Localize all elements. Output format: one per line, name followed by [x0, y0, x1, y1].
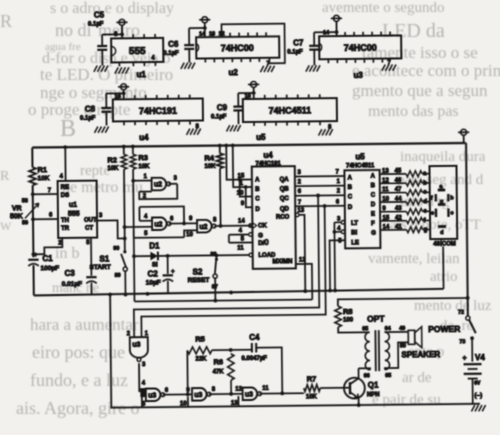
svg-text:12: 12: [299, 257, 306, 263]
svg-text:repte: repte: [80, 163, 110, 179]
resistor R4: [219, 146, 221, 154]
svg-text:F: F: [371, 221, 375, 227]
wire latch loop1: [139, 184, 177, 199]
svg-text:C: C: [348, 194, 353, 200]
svg-text:R: R: [0, 11, 12, 31]
svg-text:13: 13: [382, 169, 389, 175]
svg-text:D: D: [255, 207, 260, 213]
svg-text:Q1: Q1: [368, 381, 379, 390]
nand gate u3 third: [192, 388, 207, 401]
svg-text:14: 14: [323, 30, 330, 36]
svg-text:d: d: [423, 199, 427, 205]
wire OPT primary bottom to Q1: [358, 368, 370, 370]
svg-text:66: 66: [364, 373, 370, 379]
svg-text:41: 41: [395, 224, 402, 230]
wire gate3 pin10 to rail: [187, 397, 189, 407]
svg-text:SPEAKER: SPEAKER: [401, 350, 440, 359]
svg-text:73: 73: [459, 339, 465, 345]
svg-text:LE: LE: [351, 240, 359, 246]
svg-text:A: A: [371, 174, 376, 180]
svg-text:TR: TR: [61, 226, 70, 232]
svg-text:B: B: [60, 116, 76, 142]
svg-text:g: g: [424, 227, 428, 233]
svg-text:11: 11: [237, 246, 244, 252]
wire right +V rail: [464, 142, 466, 144]
svg-text:555: 555: [68, 211, 80, 218]
svg-text:48: 48: [433, 242, 440, 248]
svg-text:u5: u5: [256, 133, 266, 142]
svg-text:RE: RE: [61, 185, 69, 191]
svg-text:c: c: [450, 210, 453, 216]
svg-text:u3: u3: [245, 391, 253, 398]
wire latch bottom: [134, 236, 184, 239]
svg-text:TH: TH: [61, 218, 69, 224]
svg-text:W: W: [0, 219, 12, 233]
svg-text:S2: S2: [193, 267, 203, 276]
wire bottom rail: [34, 289, 444, 296]
svg-text:90: 90: [113, 246, 119, 252]
ground: [260, 66, 263, 72]
svg-text:22K: 22K: [195, 356, 207, 362]
svg-text:d: d: [440, 230, 443, 236]
svg-text:10K: 10K: [38, 175, 50, 182]
wire pin4 RE to rail: [64, 147, 66, 181]
svg-text:555: 555: [129, 46, 146, 57]
wire gate2 out to gate3: [163, 393, 192, 395]
svg-text:vamente, leilan: vamente, leilan: [368, 251, 460, 267]
wire gate2 pin4/5 tie: [140, 388, 146, 397]
svg-text:BI: BI: [351, 230, 357, 236]
svg-text:u5: u5: [355, 152, 365, 161]
svg-text:0.1µF: 0.1µF: [88, 22, 104, 28]
svg-text:A: A: [255, 177, 260, 183]
resistor R7 10K: [304, 385, 321, 392]
op timer u1 555 main box: [58, 181, 98, 238]
wire pin2 TR: [33, 238, 62, 254]
svg-text:R5: R5: [195, 334, 205, 343]
wire left drop to oscillator: [110, 291, 480, 408]
wire gate4 out to R7: [260, 392, 304, 394]
IC u5 74HC4511 (decoupling row): [243, 98, 337, 122]
svg-text:C2: C2: [148, 269, 159, 278]
power +V u5: [251, 81, 257, 87]
wire gate4 pin13 to rail: [237, 396, 239, 406]
wire top +V rail: [32, 143, 463, 148]
nand gate u2 C: [197, 220, 212, 233]
svg-text:50K: 50K: [10, 213, 23, 220]
ground: [94, 127, 97, 133]
svg-text:43: 43: [395, 206, 402, 212]
svg-text:u2: u2: [154, 221, 162, 228]
svg-text:16: 16: [115, 94, 121, 100]
svg-text:u2: u2: [199, 224, 207, 231]
resistor R46 segment b: [380, 182, 406, 184]
wire R4 to CK line: [219, 168, 222, 226]
svg-text:QD: QD: [280, 207, 290, 213]
wire QB to u5 B: [295, 185, 345, 188]
svg-text:u3: u3: [148, 392, 156, 399]
svg-text:D1: D1: [149, 241, 160, 250]
svg-text:100: 100: [343, 317, 354, 323]
resistor R43 segment e: [380, 211, 406, 213]
wire u4 input C pin10: [240, 179, 252, 196]
svg-text:S1: S1: [99, 254, 109, 263]
wire R2 to S1/latch node: [123, 169, 126, 252]
resistor R47 segment c: [380, 192, 406, 194]
svg-text:0.01µF: 0.01µF: [62, 281, 82, 288]
svg-text:C: C: [371, 193, 376, 199]
svg-text:LOAD: LOAD: [258, 253, 276, 259]
svg-text:G: G: [258, 233, 263, 239]
svg-text:12: 12: [382, 178, 389, 184]
wire R8 to OPT primary top: [338, 327, 370, 333]
svg-text:MX/MN: MX/MN: [272, 259, 292, 265]
svg-text:C1: C1: [42, 254, 53, 263]
IC u1 555 (decoupling row): [111, 38, 163, 63]
nand gate u2 B: [152, 217, 167, 230]
svg-text:no di: no di: [55, 20, 92, 40]
svg-text:C3: C3: [65, 269, 76, 278]
svg-text:mento das pas: mento das pas: [368, 103, 459, 120]
svg-text:6V: 6V: [474, 381, 481, 387]
svg-text:OPT: OPT: [367, 314, 385, 324]
wire R3 rail down to bus A: [133, 169, 134, 301]
svg-text:44: 44: [395, 196, 402, 202]
svg-text:74HC00: 74HC00: [221, 43, 254, 53]
svg-text:14: 14: [238, 219, 245, 225]
svg-text:13: 13: [231, 401, 238, 407]
svg-text:R3: R3: [138, 153, 148, 162]
svg-text:42: 42: [395, 215, 402, 221]
ground: [226, 125, 229, 131]
svg-text:89: 89: [115, 273, 121, 279]
svg-text:47K: 47K: [213, 369, 225, 375]
wire gate B pin4: [140, 220, 152, 222]
power +V u1: [119, 19, 125, 25]
svg-text:45: 45: [394, 168, 401, 174]
svg-text:11: 11: [262, 386, 269, 392]
resistor R45 segment a: [380, 173, 406, 175]
svg-text:10: 10: [237, 191, 244, 197]
svg-text:12: 12: [235, 387, 242, 393]
ground: [94, 66, 97, 72]
svg-text:u3: u3: [194, 392, 202, 399]
resistor R41 segment g: [380, 229, 406, 231]
svg-text:ar de: ar de: [402, 370, 432, 386]
resistor R1: [29, 167, 36, 185]
svg-text:C7: C7: [293, 38, 304, 47]
svg-text:47: 47: [395, 187, 402, 193]
svg-text:C8: C8: [85, 105, 96, 114]
svg-text:u3: u3: [353, 71, 363, 80]
svg-text:V4: V4: [475, 353, 485, 362]
wire R5 to node B: [212, 349, 251, 351]
svg-text:R7: R7: [307, 374, 317, 383]
power +V u3: [333, 15, 339, 21]
svg-text:65: 65: [362, 326, 368, 332]
svg-text:SI: SI: [152, 262, 158, 268]
svg-text:15: 15: [382, 215, 389, 221]
svg-text:C: C: [255, 196, 260, 202]
ground: [382, 65, 385, 71]
svg-text:u1: u1: [69, 202, 77, 209]
wire gate A output 3: [169, 183, 178, 185]
wire Q1 collector to OPT: [357, 368, 359, 378]
power +V u4: [121, 84, 127, 90]
svg-text:NPN: NPN: [367, 392, 380, 398]
svg-text:D: D: [371, 202, 376, 208]
node QD branch: [323, 204, 327, 208]
svg-text:74HC4511: 74HC4511: [269, 105, 312, 115]
wire gate3 out to gate4: [209, 393, 243, 395]
wire pin5 CT to C3: [90, 238, 92, 276]
svg-text:OUT: OUT: [84, 218, 97, 224]
IC u2 74HC00 (decoupling row): [196, 36, 279, 58]
svg-text:u4: u4: [139, 133, 149, 142]
svg-text:u2: u2: [154, 182, 162, 189]
svg-text:46: 46: [395, 178, 402, 184]
wire bus A (pin12/S2): [134, 300, 312, 302]
wire gate A pin1: [133, 180, 151, 182]
svg-text:10K: 10K: [306, 394, 318, 400]
battery V4 6V: [471, 338, 473, 361]
wire gate C output 8 to CK: [214, 225, 252, 227]
svg-text:0.0047µF: 0.0047µF: [241, 356, 267, 362]
svg-text:R1: R1: [37, 165, 47, 174]
svg-text:b: b: [423, 180, 427, 186]
svg-text:CT: CT: [85, 226, 93, 232]
svg-text:74HC191: 74HC191: [139, 106, 177, 116]
wire gate A pin2: [139, 191, 151, 193]
svg-text:R4: R4: [204, 153, 215, 162]
wire bus C (QD to osc pin1): [140, 206, 326, 337]
wire bus B (QC to osc pin2): [133, 195, 320, 337]
svg-text:R2: R2: [107, 155, 117, 164]
svg-text:+: +: [462, 355, 466, 362]
ground: [318, 129, 321, 135]
svg-text:avemente o segundo: avemente o segundo: [322, 0, 444, 16]
svg-text:CK: CK: [258, 223, 267, 229]
wire RCO pin13: [295, 213, 299, 217]
svg-text:B: B: [348, 185, 353, 191]
svg-text:e: e: [431, 211, 434, 217]
wire DS pin7: [33, 193, 58, 195]
svg-text:10K: 10K: [138, 164, 150, 170]
svg-text:14: 14: [199, 31, 206, 37]
wire OUT pin3 to S1 node: [97, 220, 125, 238]
resistor R2: [123, 147, 125, 155]
wire +V feed W2 to R8: [338, 298, 468, 306]
svg-text:fundo, e a luz: fundo, e a luz: [30, 370, 128, 390]
svg-text:11: 11: [382, 187, 389, 193]
svg-text:74HC4511: 74HC4511: [346, 163, 375, 169]
wire D1 to LOAD pin11: [158, 254, 250, 257]
svg-text:C5: C5: [94, 11, 105, 20]
svg-text:DS: DS: [61, 193, 69, 199]
speaker: [408, 330, 415, 344]
svg-text:C9: C9: [217, 103, 228, 112]
nand gate u3 second: [146, 388, 161, 401]
resistor R8 100: [335, 306, 342, 327]
svg-text:u2: u2: [228, 68, 238, 77]
svg-text:u3: u3: [132, 342, 140, 349]
ground battery: [471, 405, 474, 411]
svg-text:POWER: POWER: [428, 324, 460, 334]
svg-text:49: 49: [399, 326, 405, 332]
wire LT pin3 / BI pin4: [341, 221, 345, 225]
wire Q1 emitter to rail: [358, 398, 360, 405]
svg-text:START: START: [89, 264, 110, 271]
wire gate1 out to gate2: [139, 363, 146, 391]
svg-text:58: 58: [22, 198, 28, 204]
resistor R44 segment d: [380, 201, 406, 203]
display 7-segment: [429, 166, 457, 239]
svg-text:R6: R6: [213, 357, 223, 366]
svg-text:0.1µF: 0.1µF: [80, 116, 96, 122]
svg-text:LED da: LED da: [382, 20, 445, 42]
svg-text:R: R: [0, 169, 10, 184]
wire QD to u5 D: [295, 205, 345, 208]
svg-text:hara a aumentar: hara a aumentar: [30, 315, 139, 334]
nand gate u3 fourth: [243, 387, 258, 400]
ground: [181, 63, 184, 69]
wire left rail: [31, 148, 33, 168]
svg-text:inaqueila dura: inaqueila dura: [400, 149, 486, 165]
node QC branch: [316, 194, 320, 198]
svg-text:mento de luz: mento de luz: [414, 298, 492, 314]
svg-text:R8: R8: [343, 307, 353, 316]
wire left rail mid: [32, 185, 35, 257]
svg-text:D: D: [348, 205, 353, 211]
svg-text:s o adro e o display: s o adro e o display: [50, 0, 174, 17]
svg-text:G: G: [371, 231, 376, 237]
svg-text:10µF: 10µF: [146, 279, 161, 286]
power +V main rail: [461, 129, 467, 135]
svg-text:g: g: [440, 199, 443, 205]
svg-text:A: A: [348, 175, 353, 181]
svg-text:gmento que a segun: gmento que a segun: [352, 81, 488, 100]
svg-text:QC: QC: [280, 196, 290, 202]
svg-text:65: 65: [385, 373, 391, 379]
wire u4 input A pin15: [226, 145, 252, 179]
svg-text:72: 72: [458, 310, 464, 316]
svg-text:10K: 10K: [107, 166, 119, 172]
wire G pin4 / D-U pin5: [229, 234, 249, 236]
wire C4 right to gate4 output: [256, 347, 282, 393]
wire TH pin6: [33, 218, 58, 220]
svg-text:B: B: [371, 183, 376, 189]
svg-text:u1: u1: [136, 70, 146, 79]
nand gate u2 A: [152, 178, 167, 191]
wire QA to u5 A: [295, 175, 345, 178]
ground: [186, 129, 189, 135]
svg-text:10: 10: [180, 401, 187, 407]
svg-text:QB: QB: [280, 187, 290, 193]
wire R7 to Q1 base: [320, 387, 350, 389]
wire QC to u5 C: [295, 194, 345, 197]
IC u3 74HC00 (decoupling row): [319, 35, 401, 59]
wire gate C pin10: [184, 230, 197, 237]
svg-text:e acontece com o prim: e acontece com o prim: [352, 61, 500, 80]
wire pins12-13 to pin7 loop: [221, 24, 284, 64]
resistor R3: [132, 147, 134, 155]
svg-text:C4: C4: [249, 333, 260, 342]
svg-text:13: 13: [297, 208, 304, 214]
svg-text:B: B: [255, 187, 260, 193]
wire OPT secondary to speaker: [385, 331, 409, 333]
svg-text:10K: 10K: [204, 164, 216, 170]
svg-text:14: 14: [383, 224, 390, 230]
svg-text:D/Ū: D/Ū: [258, 240, 268, 247]
svg-text:10: 10: [382, 197, 389, 203]
svg-text:16: 16: [245, 93, 251, 99]
svg-text:74HC00: 74HC00: [344, 43, 377, 53]
svg-text:LT: LT: [351, 221, 358, 227]
ground: [115, 67, 118, 73]
power +V u2: [202, 17, 208, 23]
svg-text:u4: u4: [263, 151, 273, 160]
svg-text:QA: QA: [280, 177, 290, 183]
IC u4 74HC191 (decoupling row): [113, 98, 203, 121]
wire latch node to D1: [134, 255, 150, 257]
resistor R5 22K: [186, 350, 188, 394]
svg-text:(–): (–): [474, 392, 482, 399]
wire gate B pin5 from R2 node: [125, 226, 152, 228]
ground: [306, 65, 309, 71]
svg-text:RESET: RESET: [188, 277, 210, 284]
resistor R42 segment f: [380, 220, 406, 222]
svg-text:0.1µF: 0.1µF: [163, 51, 179, 57]
transistor Q1 NPN: [344, 378, 365, 399]
svg-text:59: 59: [22, 220, 28, 226]
wire u4 input B pin1: [233, 145, 252, 187]
svg-text:10: 10: [186, 232, 193, 238]
wire pin12 MX/MN: [296, 264, 312, 300]
svg-text:f: f: [431, 196, 433, 202]
svg-text:0.1µF: 0.1µF: [287, 49, 303, 55]
svg-text:VR: VR: [12, 205, 22, 212]
svg-text:100µF: 100µF: [40, 265, 59, 272]
wire latch loop2: [139, 206, 184, 223]
svg-text:50: 50: [400, 343, 406, 349]
svg-text:C6: C6: [168, 40, 179, 49]
wire u4 input D pin9: [246, 187, 253, 207]
wire gate B out to gate C: [169, 222, 197, 224]
svg-text:E: E: [371, 212, 375, 218]
resistor R6 47K: [228, 354, 235, 381]
svg-text:0.1µF: 0.1µF: [211, 114, 227, 120]
svg-text:RCO: RCO: [276, 215, 290, 221]
